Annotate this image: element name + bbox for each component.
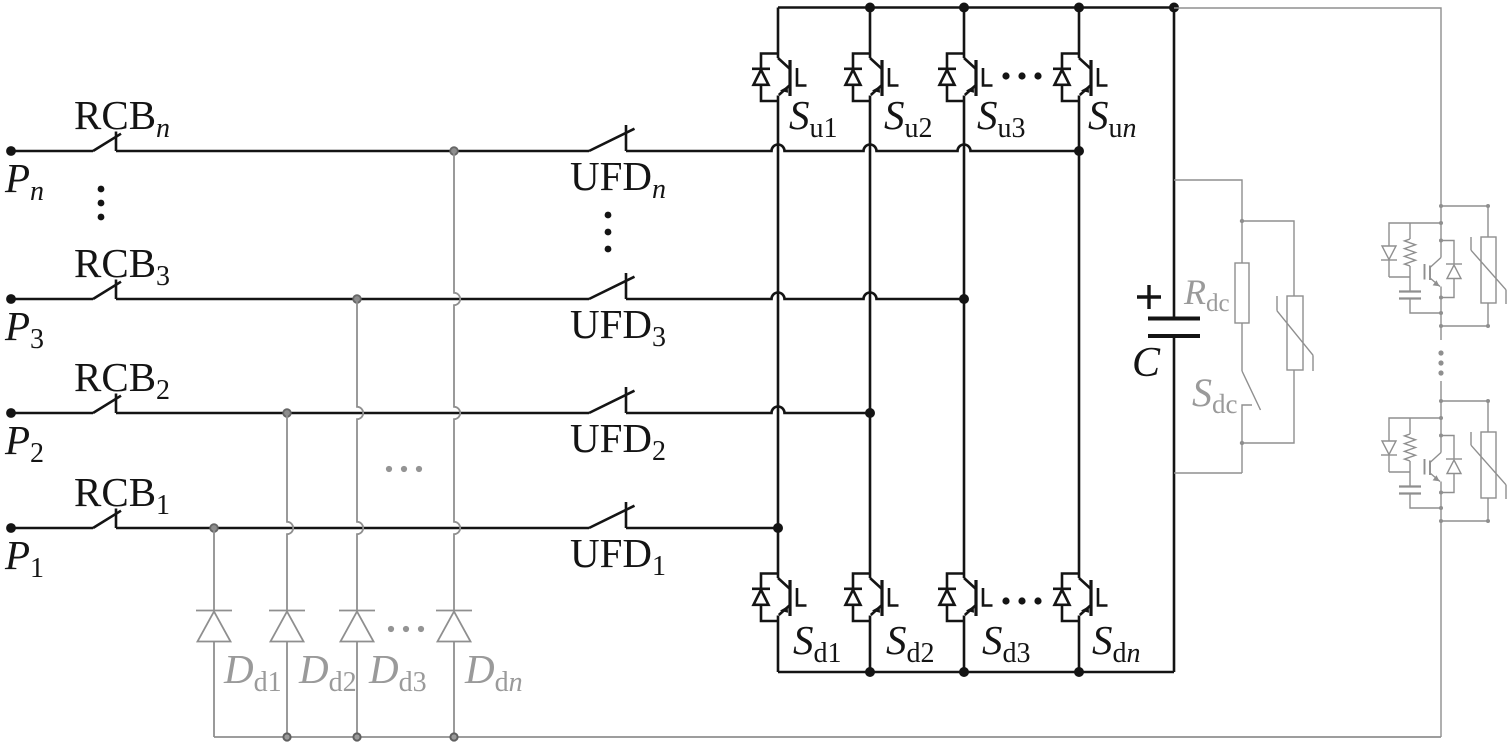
wire SM2 snubber top: [1389, 418, 1441, 441]
IGBT body: [1079, 58, 1091, 69]
wire MOV branch: [1242, 221, 1294, 443]
wire stack feed: [1174, 8, 1441, 258]
IGBT body: [964, 578, 976, 589]
disconnector UFD3: [589, 277, 635, 299]
switch Sdc: [1242, 371, 1261, 410]
node P3 terminal: [6, 294, 16, 304]
IGBT freewheeling diode: [853, 54, 870, 69]
wire SM1 snubber resistor branch: [1409, 223, 1411, 239]
svg-text:RCB1: RCB1: [74, 469, 170, 521]
svg-text:Rdc: Rdc: [1183, 272, 1230, 317]
diode Dd2: [269, 610, 305, 612]
wire leg 3 collector: [963, 8, 966, 59]
IGBT freewheeling diode: [1062, 54, 1079, 69]
wire Dd3 branch lower: [356, 642, 358, 738]
wire P1 to RCB1: [11, 527, 93, 530]
junction top bus: [865, 3, 875, 13]
disconnector UFDn: [589, 129, 635, 151]
wire Rdc branch top: [1174, 180, 1242, 263]
wire SM2 emitter: [1440, 482, 1442, 522]
ellipsis gray columns mid: [386, 466, 392, 472]
wire positive DC bus: [778, 6, 1174, 9]
diode SM2 snubber: [1382, 441, 1396, 455]
wire SM2 varistor branch bottom: [1441, 498, 1488, 521]
wire leg 1 midpoint: [777, 96, 780, 579]
junction gray return bus: [450, 733, 457, 740]
IGBT gate: [1098, 68, 1108, 86]
IGBT gate: [983, 588, 993, 606]
svg-text:RCB2: RCB2: [74, 354, 170, 406]
wire RCB1 to UFD1: [116, 527, 589, 530]
capacitor C: [1148, 317, 1200, 321]
wire UFD2 to leg 2: [626, 407, 870, 414]
ellipsis lower legs horizontal: [1002, 597, 1009, 604]
wire SM2 snubber join: [1389, 461, 1410, 486]
transistor SM2 IGBT: [1430, 453, 1441, 463]
wire Rdc to Sdc: [1241, 323, 1243, 371]
wire stack mid: [1440, 381, 1442, 453]
wire SM1 snubber top: [1389, 223, 1441, 246]
wire gray return bus: [214, 736, 1441, 738]
varistor SM1: [1481, 237, 1496, 303]
ellipsis gray diodes: [388, 626, 394, 632]
svg-text:UFDn: UFDn: [570, 153, 666, 205]
junction Dd3 tap: [353, 295, 361, 303]
IGBT gate: [797, 68, 807, 86]
junction Dd2 tap: [283, 409, 291, 417]
varistor MOV dc: [1287, 296, 1303, 370]
junction bottom bus: [1074, 667, 1084, 677]
diode SM2 freewheel branch: [1441, 436, 1454, 459]
ellipsis ports vertical: [98, 186, 105, 193]
svg-text:P1: P1: [4, 532, 44, 584]
junction bottom bus: [959, 667, 969, 677]
svg-text:Su3: Su3: [977, 92, 1026, 144]
wire leg n collector: [1078, 8, 1081, 59]
wire RCB2 to UFD2: [116, 412, 589, 415]
junction Ddn tap: [450, 147, 458, 155]
junction row 2 to leg 2: [865, 408, 875, 418]
wire Ddn branch upper: [454, 151, 460, 611]
IGBT body: [778, 58, 790, 69]
IGBT gate: [1098, 588, 1108, 606]
wire UFDn to leg n: [626, 145, 1079, 152]
junction gray return bus: [283, 733, 290, 740]
junction top bus: [1169, 3, 1179, 13]
wire SM1 varistor branch top: [1441, 206, 1488, 237]
breaker RCBn: [93, 134, 121, 151]
IGBT body: [778, 578, 790, 589]
wire leg n emitter: [1078, 616, 1081, 673]
svg-text:Sun: Sun: [1088, 92, 1137, 144]
svg-text:Sd1: Sd1: [793, 617, 842, 669]
resistor SM1 snubber: [1405, 239, 1416, 266]
IGBT freewheeling diode: [1062, 574, 1079, 589]
resistor Rdc: [1235, 263, 1249, 323]
IGBT freewheeling diode: [761, 54, 778, 69]
transistor SM1 IGBT: [1430, 258, 1441, 268]
wire P2 to RCB2: [11, 412, 93, 415]
wire negative DC bus: [778, 671, 1174, 674]
IGBT freewheeling diode: [947, 54, 964, 69]
wire SM1 snubber diode lower: [1388, 260, 1390, 277]
wire SM2 snubber resistor branch: [1409, 418, 1411, 434]
svg-text:UFD1: UFD1: [570, 530, 666, 582]
svg-text:Dd3: Dd3: [368, 646, 427, 698]
node P1 terminal: [6, 523, 16, 533]
wire SM2 varistor branch top: [1441, 401, 1488, 432]
IGBT freewheeling diode: [853, 574, 870, 589]
wire leg 1 emitter: [777, 616, 780, 673]
svg-text:UFD3: UFD3: [570, 301, 666, 353]
svg-text:P2: P2: [4, 417, 44, 469]
diode Dd3: [339, 610, 375, 612]
svg-text:RCB3: RCB3: [74, 240, 170, 292]
wire Dd3 branch upper: [357, 299, 363, 611]
IGBT body: [870, 578, 882, 589]
diode Ddn: [436, 610, 472, 612]
wire UFD1 to leg 1: [626, 527, 778, 530]
ellipsis stack vertical: [1438, 350, 1443, 355]
ellipsis upper legs horizontal: [1002, 72, 1009, 79]
wire UFD3 to leg 3: [626, 293, 964, 300]
junction row n to leg n: [1074, 146, 1084, 156]
capacitor SM1 snubber: [1399, 290, 1421, 292]
disconnector UFD2: [589, 391, 635, 413]
wire SM2 snubber bottom: [1410, 494, 1441, 508]
diode SM1 freewheel branch: [1441, 241, 1454, 264]
junction row 3 to leg 3: [959, 294, 969, 304]
IGBT body: [1079, 578, 1091, 589]
junction Dd1 tap: [210, 524, 218, 532]
IGBT gate: [983, 68, 993, 86]
IGBT gate: [889, 588, 899, 606]
wire RCBn to UFDn: [116, 150, 589, 153]
junction SM1 nodes: [1439, 204, 1443, 208]
wire Ddn branch lower: [453, 642, 455, 738]
svg-text:Sdc: Sdc: [1192, 370, 1238, 419]
svg-text:Sd2: Sd2: [886, 617, 935, 669]
breaker RCB1: [93, 511, 121, 528]
junction row 1 to leg 1: [773, 523, 783, 533]
wire stack to return bus: [1440, 521, 1442, 737]
wire leg n midpoint: [1078, 96, 1081, 579]
junction Rdc branch top: [1240, 219, 1244, 223]
junction gray return bus: [353, 733, 360, 740]
wire leg 2 emitter: [869, 616, 872, 673]
wire cap branch lower: [1173, 336, 1176, 672]
wire leg 3 emitter: [963, 616, 966, 673]
svg-text:P3: P3: [4, 303, 44, 355]
wire SM1 snubber bottom: [1410, 299, 1441, 313]
svg-text:RCBn: RCBn: [74, 92, 170, 144]
svg-text:Sdn: Sdn: [1092, 617, 1141, 669]
wire SM2 snubber diode lower: [1388, 455, 1390, 472]
junction Sdc bottom: [1240, 441, 1244, 445]
label C polarity +: [1137, 285, 1161, 309]
IGBT freewheeling diode: [761, 574, 778, 589]
wire leg 3 midpoint: [963, 96, 966, 579]
wire Dd2 branch lower: [286, 642, 288, 738]
wire leg 2 midpoint: [869, 96, 872, 579]
svg-text:Pn: Pn: [4, 155, 44, 207]
junction bottom bus: [865, 667, 875, 677]
breaker RCB3: [93, 282, 121, 299]
svg-text:UFD2: UFD2: [570, 415, 666, 467]
diode Dd1: [196, 610, 232, 612]
svg-text:Dd1: Dd1: [223, 646, 282, 698]
node P2 terminal: [6, 408, 16, 418]
svg-text:Dd2: Dd2: [298, 646, 357, 698]
svg-text:Sd3: Sd3: [982, 617, 1031, 669]
junction SM2 nodes: [1439, 399, 1443, 403]
wire SM1 snubber join: [1389, 266, 1410, 291]
diode SM1 snubber: [1382, 246, 1396, 260]
wire Dd1 branch upper: [213, 528, 215, 611]
wire Rdc branch bottom: [1174, 472, 1242, 474]
wire Dd1 branch lower: [213, 642, 215, 738]
disconnector UFD1: [589, 506, 635, 528]
wire SM1 emitter: [1440, 287, 1442, 341]
IGBT body: [870, 58, 882, 69]
wire SM1 varistor branch bottom: [1441, 303, 1488, 326]
IGBT freewheeling diode: [947, 574, 964, 589]
resistor SM2 snubber: [1405, 434, 1416, 461]
IGBT gate: [797, 588, 807, 606]
wire Dd2 branch upper: [287, 413, 293, 611]
node Pn terminal: [6, 146, 16, 156]
svg-text:Ddn: Ddn: [464, 646, 523, 698]
svg-text:C: C: [1132, 340, 1161, 386]
junction top bus: [1074, 3, 1084, 13]
capacitor SM2 snubber: [1399, 485, 1421, 487]
svg-text:Su1: Su1: [789, 92, 838, 144]
svg-text:Su2: Su2: [884, 92, 933, 144]
IGBT gate: [889, 68, 899, 86]
wire cap branch upper: [1173, 8, 1176, 319]
wire leg 1 collector: [777, 8, 780, 59]
wire RCB3 to UFD3: [116, 298, 589, 301]
wire P3 to RCB3: [11, 298, 93, 301]
wire leg 2 collector: [869, 8, 872, 59]
varistor SM2: [1481, 432, 1496, 498]
IGBT body: [964, 58, 976, 69]
wire Pn to RCBn: [11, 150, 93, 153]
junction top bus: [959, 3, 969, 13]
breaker RCB2: [93, 396, 121, 413]
ellipsis UFD vertical: [605, 212, 612, 219]
